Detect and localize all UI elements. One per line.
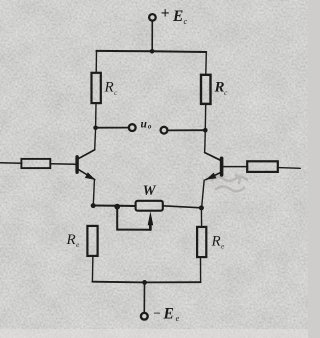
resistor Rc (right) [201, 75, 211, 104]
label Re left [66, 232, 81, 249]
wire: top rail down to Rc left [95, 51, 97, 73]
svg-text:E: E [163, 305, 174, 322]
wire: output right segment [168, 129, 206, 131]
wire: Rc right to right collector node [204, 104, 206, 130]
junction: right emitter node [199, 205, 204, 210]
resistor Re (right) [197, 227, 206, 257]
resistor Re (left) [87, 226, 97, 256]
svg-text:+: + [161, 5, 170, 22]
svg-text:R: R [214, 80, 225, 96]
Q1 collector diagonal [78, 150, 95, 159]
svg-text:W: W [143, 183, 157, 199]
wire: left emitter node to pot left end [93, 205, 135, 208]
top rail wire [96, 51, 206, 52]
wire: bottom junction to -Ee terminal [143, 282, 145, 312]
svg-text:R: R [104, 80, 114, 96]
wire: Q2 base to right input resistor [223, 166, 247, 168]
Q1 emitter arrow [85, 172, 96, 180]
wire: Rc left to collector node [95, 103, 97, 127]
svg-text:c: c [184, 17, 188, 26]
Q2 collector diagonal [205, 153, 221, 161]
wire: right input resistor to edge [278, 167, 300, 170]
wire: input resistor to Q1 base [50, 163, 75, 166]
wire: Q2 emitter down to right emitter node [202, 180, 205, 208]
label Re right [211, 234, 226, 251]
Q2 base bar [220, 158, 224, 175]
svg-text:u: u [141, 118, 148, 130]
terminal -Ee [141, 313, 148, 320]
wire: left input [0, 162, 22, 165]
label +Ec [161, 5, 188, 26]
junction: wiper tie point [114, 204, 120, 210]
Q1 base bar [75, 157, 78, 172]
resistor R (right input) [247, 161, 278, 172]
Q2 collector lead [204, 130, 207, 152]
transistor Q2 (right) [205, 130, 222, 180]
terminal uo right [161, 127, 168, 134]
svg-text:–: – [153, 305, 161, 319]
Q2 emitter diagonal [206, 172, 221, 179]
junction: left emitter node [91, 203, 96, 208]
svg-text:e: e [176, 314, 180, 323]
junction: bottom rail / -Ee feed [142, 280, 147, 285]
pot wiper loop wire [117, 208, 150, 230]
label Rc left [104, 80, 119, 98]
wire: Re right to bottom rail [200, 257, 202, 282]
wire: Q1 emitter down to emitter node [93, 180, 94, 205]
wire: +Ec terminal to top rail [151, 21, 153, 51]
wire: Re left to bottom rail [91, 256, 94, 282]
wire: pot right end to right emitter node [163, 206, 201, 208]
svg-text:R: R [211, 234, 221, 250]
label -Ee [153, 305, 180, 323]
resistor R (left input) [21, 159, 50, 168]
label Rc right [214, 80, 229, 98]
resistor Rc (left) [92, 73, 101, 103]
svg-text:o: o [148, 123, 152, 131]
wire: right emitter node to Re right [200, 208, 202, 227]
wire: output left segment [96, 127, 129, 129]
node: left collector / output junction [93, 126, 98, 131]
pot wiper arrow [148, 211, 154, 225]
label uo [141, 118, 152, 130]
Q2 emitter arrow [206, 173, 217, 180]
Q1 emitter diagonal [78, 169, 95, 179]
potentiometer W body [136, 201, 163, 211]
wire: top rail down to Rc right [205, 52, 208, 75]
junction: top rail / +Ec feed [150, 49, 155, 54]
bottom rail wire [92, 281, 200, 284]
Q1 collector lead [94, 128, 97, 150]
node: right collector / output junction [203, 128, 208, 133]
terminal +Ec [149, 14, 156, 21]
svg-text:R: R [66, 232, 76, 248]
terminal uo left [129, 124, 136, 131]
svg-text:E: E [172, 8, 183, 25]
transistor Q1 (left) [77, 128, 96, 180]
